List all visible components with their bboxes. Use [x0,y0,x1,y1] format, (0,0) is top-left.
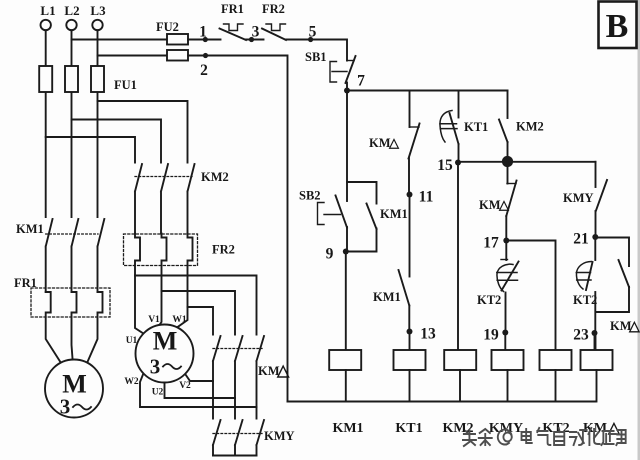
svg-text:U1: U1 [126,336,138,346]
svg-text:KT1: KT1 [464,120,488,134]
node 9 [343,249,349,255]
node 15 [455,160,461,166]
svg-text:L1: L1 [40,3,55,18]
aux contact KM delta parallel branch [595,238,629,313]
svg-text:KM: KM [479,198,501,212]
svg-text:KM1: KM1 [380,207,408,221]
svg-text:KM1: KM1 [332,421,363,436]
contact KM delta (NC) [409,124,420,195]
svg-text:△: △ [628,320,640,335]
svg-text:KM1: KM1 [16,222,44,236]
wire node11 down [409,195,411,277]
svg-text:KMY: KMY [264,429,295,443]
node 1 [203,37,208,42]
svg-text:W1: W1 [172,315,187,325]
thermal relay FR1 box [31,288,110,317]
glyph 用 [616,430,625,445]
svg-text:KT2: KT2 [542,421,569,436]
svg-text:23: 23 [573,327,589,344]
svg-text:△: △ [388,135,400,150]
wire node7 down to SB2 [346,91,348,202]
svg-text:7: 7 [357,73,365,90]
svg-text:SB2: SB2 [299,189,321,203]
fuse FU1 pole1 [39,66,52,92]
glyph 条 [479,429,492,445]
coil KM1 [329,350,361,370]
node 17 [503,238,509,244]
svg-text:KT1: KT1 [395,421,422,436]
wire L1 branch to KM2 pole1 [46,137,135,163]
wire FR2 out3 to KM delta pole1 [188,307,214,335]
svg-text:13: 13 [420,326,436,343]
motor M2 [136,325,194,383]
svg-text:1: 1 [199,24,207,41]
svg-text:△: △ [276,363,290,380]
wire star point bar [213,455,257,457]
FR1 heater pole2 [72,292,77,359]
svg-text:19: 19 [483,327,499,344]
wire node13 to KT1 coil [409,332,411,351]
coil KT2 [540,350,572,370]
glyph 头 [463,430,476,446]
glyph 应 [602,431,614,445]
svg-text:KMY: KMY [563,191,594,205]
glyph 气 [537,428,550,445]
glyph 自 [554,428,564,445]
svg-text:KT2: KT2 [477,293,501,307]
svg-text:M: M [153,327,178,356]
glyph 电 [522,429,532,443]
branch KM2 NO from bus [507,91,509,119]
FR2 heater pole1 [135,234,145,335]
node 5 [308,37,313,42]
wire FU2 top to node 1 [188,39,221,41]
glyph @ [498,430,512,445]
wire node17 right to KT2 coil [506,241,555,351]
wire L2 branch to KM2 pole2 [72,120,162,163]
pushbutton SB1 (NC stop) [330,56,356,91]
contact KMY (NO) [596,162,608,237]
svg-text:2: 2 [200,62,208,79]
svg-text:W2: W2 [124,377,139,387]
glyph 化 [588,428,599,445]
wire node3 segment [246,39,264,41]
svg-text:V2: V2 [179,381,191,391]
wire FR2 to node5 then to SB1 drop [286,40,348,61]
FR1 heater pole1 [46,292,61,363]
FR2 heater pole3 [176,234,193,329]
svg-text:3: 3 [150,355,161,379]
wire FR2 out1 to KM delta pole3 [135,276,257,335]
svg-text:FU2: FU2 [156,20,179,34]
svg-text:15: 15 [437,157,453,174]
thermal contact FR1 (NC) [220,24,247,40]
contact KT2 (delayed NC) left [497,260,519,333]
svg-text:L3: L3 [90,3,106,18]
svg-text:FR2: FR2 [262,2,285,16]
wire node17 down [505,241,507,261]
wire node19 to KMY coil [504,333,506,351]
fuse FU2 bottom [167,50,188,61]
fuse FU2 top [167,34,188,45]
junction dot [502,156,513,167]
contact KM2 (NO) [499,120,508,162]
svg-text:KM2: KM2 [516,120,544,134]
node 2 [203,53,208,58]
terminal L2 [66,20,76,30]
coil KT1 [394,350,426,370]
svg-text:KM1: KM1 [373,290,401,304]
FR2 heater pole2 [158,234,167,328]
terminal L1 [41,20,51,30]
wire node15 bus to KMY branch [458,161,596,163]
wire W2 to pole3 [140,375,257,408]
node 7 [344,88,350,94]
svg-text:FU1: FU1 [114,78,137,92]
svg-text:L2: L2 [64,3,79,18]
thermal contact FR2 (NC) [262,24,286,40]
aux contact KM1 holding branch [347,182,377,252]
wire L1 down to KM1 pole1 [45,30,47,217]
svg-text:FR1: FR1 [14,276,37,290]
pushbutton SB2 (NO start) [318,196,348,252]
svg-text:9: 9 [326,246,334,263]
wire L3 down to KM1 pole3 [97,30,99,217]
contact KT2 (delayed NC) right [576,262,595,334]
wire FR2 out2 to KM delta pole2 [162,291,236,335]
wire U2 to pole2 [165,383,236,399]
contactor KMY main contacts [213,420,264,456]
contact KM delta (NC) above 17 [506,181,516,241]
coil KMY [492,350,524,370]
svg-text:FR2: FR2 [212,243,235,257]
FR1 heater pole3 [87,292,103,363]
svg-text:SB1: SB1 [305,50,327,64]
svg-text:17: 17 [483,235,499,252]
fuse FU1 pole3 [91,66,104,92]
contact KT1 (delayed NO) [440,111,459,163]
svg-text:B: B [606,8,629,45]
node 21 [592,234,598,240]
wire node15 to KM2 coil [457,163,459,351]
coil KM2 [444,350,476,370]
wire node21 down [594,237,596,260]
contactor KM1 main contacts [46,219,105,292]
wire node23 to KM delta coil [595,333,596,350]
svg-text:11: 11 [419,189,434,206]
terminal L3 [92,20,102,30]
node 23 [592,330,598,336]
svg-text:KM: KM [369,136,391,150]
branch KM-delta NC from bus [409,91,411,128]
frame B box [599,2,637,49]
wire L3 branch to FU2 bottom fuse [98,55,168,57]
svg-text:3: 3 [252,24,260,41]
wire L2 down to KM1 pole2 [71,30,73,217]
node 11 [407,192,413,198]
svg-text:5: 5 [309,24,317,41]
svg-text:△: △ [498,197,510,212]
branch KT1 from bus [458,91,460,118]
coil KM delta [581,350,613,370]
wire FU2 bottom to node 2 corner and down [188,56,288,402]
glyph 动 [570,430,587,445]
svg-text:U2: U2 [152,388,164,398]
wire node9 to KM1 coil [345,252,347,351]
wire L3 branch to KM2 pole3 [98,101,188,163]
fuse FU1 pole2 [65,66,78,92]
svg-text:KT2: KT2 [573,293,597,307]
svg-text:3: 3 [60,395,71,419]
contactor KM2 main contacts [135,164,195,234]
thermal relay FR2 box [124,234,198,266]
wire L2 branch to FU2 top fuse [72,39,168,41]
node 3 [249,37,254,42]
svg-text:FR1: FR1 [221,2,244,16]
svg-text:KM2: KM2 [201,170,229,184]
motor M1 [45,360,103,418]
bottom bus wire [288,401,596,403]
watermark 头条 @电气自动化应用 drawn as vector glyphs [463,428,626,446]
wire junction down [507,162,509,184]
contactor KM delta main contacts [213,336,264,419]
scan edge right [638,0,640,460]
svg-text:V1: V1 [148,315,160,325]
svg-text:21: 21 [573,231,589,248]
node 13 [407,329,413,335]
wire V2 to pole1 [186,375,214,382]
control bus from node 7 [347,90,508,92]
node 19 [502,330,508,336]
contact KM1 (NO) [399,270,410,332]
